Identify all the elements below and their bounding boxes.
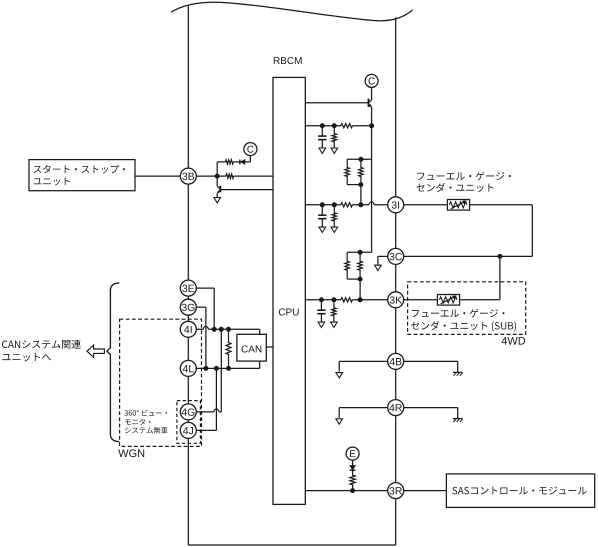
wire diode to splice C: [245, 161, 251, 163]
fuel gauge sender label: [417, 172, 511, 181]
dashed box CAN-related units (WGN): [120, 319, 202, 446]
wire 4J to riser: [197, 429, 217, 431]
resistor E chain: [350, 475, 355, 485]
junction dot: [226, 327, 231, 332]
junction dot: [319, 297, 324, 302]
junction dot: [332, 123, 337, 128]
wire row y126: [305, 125, 341, 127]
connector 3I: [388, 197, 404, 213]
wire CAN to RBCM: [266, 346, 273, 348]
RBCM module box: [273, 77, 305, 504]
bottom harness tie wire: [188, 544, 395, 546]
connector 3B: [180, 168, 196, 184]
wire emitter down: [371, 126, 373, 253]
connector 4R: [388, 400, 404, 416]
wire 4G riser: [220, 329, 222, 412]
CAN termination resistor: [226, 329, 231, 368]
junction dot: [320, 123, 325, 128]
wire diode to resistor: [352, 470, 354, 474]
RBCM label: [274, 57, 302, 64]
start-stop unit box: [29, 160, 135, 191]
resistor row 3K: [341, 298, 353, 302]
wire to sub sender: [499, 256, 501, 299]
resistor P1b: [359, 159, 364, 184]
wire 3C to ground: [378, 255, 388, 257]
ground (open arrow) 3C: [375, 265, 382, 270]
brace CAN-related group: [107, 283, 119, 442]
capacitor to ground: [320, 300, 322, 310]
junction dot: [214, 366, 219, 371]
diode D2: [350, 466, 356, 471]
resistor branch: [225, 160, 233, 164]
parallel resistor pair2 bottom bar: [347, 278, 360, 280]
transistor Q1: [369, 100, 372, 103]
junction dot: [332, 202, 337, 207]
wire sub sender to 3K: [404, 299, 438, 301]
connector 3C: [388, 248, 404, 264]
junction dot: [358, 182, 363, 187]
CAN label: [242, 345, 262, 352]
diode D1: [239, 160, 241, 165]
wire hop over 4J riser: [214, 409, 219, 412]
connector 3K: [388, 292, 404, 308]
resistor P2a: [345, 252, 350, 279]
connector 4B: [388, 353, 404, 369]
SAS control module label: [452, 486, 586, 494]
resistor P1a: [345, 159, 350, 184]
wire CAN loop right side: [259, 329, 261, 368]
ground (open arrow) 4R left: [336, 419, 343, 424]
ground (open arrow) below Q2: [214, 198, 221, 203]
WGN label: [118, 449, 144, 457]
fuel gauge sender (SUB) resistor: [437, 295, 459, 306]
connector 3R: [388, 483, 404, 499]
wire 3I to sender: [404, 204, 448, 206]
resistor series 3B: [226, 174, 234, 178]
junction dot: [219, 327, 224, 332]
splice E: [346, 447, 359, 460]
wire row 3R: [305, 490, 387, 492]
wire 4J riser: [215, 368, 217, 430]
connector 4J: [180, 422, 196, 438]
wire branch up: [216, 162, 218, 176]
left harness bus wire: [187, 5, 189, 545]
SAS control module box: [446, 474, 594, 508]
junction node 3B branch: [215, 174, 220, 179]
capacitor to ground: [321, 126, 323, 136]
wire box to 3B: [135, 175, 180, 177]
4WD label: [502, 337, 526, 345]
junction dot: [320, 202, 325, 207]
fuel gauge sender resistor: [447, 200, 469, 211]
connector 4I: [180, 321, 196, 337]
wire 3E down to 4I row: [197, 287, 215, 289]
chassis ground 4R right: [453, 418, 463, 420]
wire E to diode: [352, 460, 354, 466]
wire row 4L: [197, 367, 260, 369]
arrow to CAN system units: [87, 345, 104, 357]
junction dot: [358, 250, 363, 255]
resistor row y126: [341, 124, 353, 128]
CPU label: [279, 308, 299, 315]
wire 3B to RBCM: [197, 175, 227, 177]
right harness bus wire: [395, 17, 397, 545]
junction dot: [212, 327, 217, 332]
connector 4L: [180, 360, 196, 376]
wire 3R to SAS module: [404, 490, 447, 492]
dashed box fuel sender SUB: [408, 282, 526, 335]
wire resistor to diode: [233, 161, 240, 163]
junction dot: [358, 157, 363, 162]
wire pair to 3I row: [360, 185, 362, 205]
wire 4B right to ground: [404, 360, 458, 362]
wire Q2 base to RBCM: [221, 189, 273, 191]
ground (open arrow) 4B left: [336, 373, 343, 378]
resistor to ground: [332, 300, 337, 316]
parallel resistor pair2 top bar: [347, 251, 371, 253]
transistor Q2: [216, 176, 218, 186]
start-stop unit label: [34, 165, 125, 174]
wire row 3I: [305, 204, 341, 206]
junction dot: [350, 488, 355, 493]
junction dot: [226, 366, 231, 371]
connector 3E: [180, 280, 196, 296]
wire hop over emitter line: [369, 202, 374, 205]
dashed box 360-view: [177, 401, 201, 444]
splice C (top): [365, 74, 378, 87]
resistor to ground: [332, 205, 337, 221]
wire 3G down to 4L row: [197, 306, 206, 308]
resistor to ground: [332, 126, 337, 142]
wire harness break (wavy line): [171, 2, 412, 21]
parallel resistor pair top bar: [347, 158, 371, 160]
parallel resistor pair bottom bar: [347, 184, 361, 186]
splice C (3B branch): [244, 143, 257, 156]
junction node sender sub: [497, 254, 502, 259]
wire 4R left to ground: [339, 407, 387, 409]
chassis ground 4B right: [453, 371, 463, 373]
junction dot: [331, 297, 336, 302]
resistor row 3I: [341, 203, 353, 207]
wire Q1 base to RBCM: [305, 102, 368, 104]
connector 3G: [180, 299, 196, 315]
junction dot: [358, 277, 363, 282]
wire sender loop: [470, 204, 533, 206]
capacitor to ground: [321, 205, 323, 215]
junction dot: [358, 297, 363, 302]
wire row 4I: [197, 328, 204, 330]
wire 4G to riser: [197, 411, 214, 413]
wire resistor to 3R row: [352, 485, 354, 491]
fuel sender SUB label: [412, 309, 505, 318]
wire pair2 to 3K row: [359, 279, 361, 300]
junction dot: [203, 366, 208, 371]
connector 4G: [180, 404, 196, 420]
CAN system units label: [2, 340, 81, 349]
wire 4B left to ground: [339, 360, 387, 362]
360-view monitor label: [124, 410, 167, 416]
CAN transceiver box: [237, 334, 266, 361]
junction dot: [358, 202, 363, 207]
junction node emitter: [369, 123, 374, 128]
wire hop over 3G wire: [203, 326, 208, 329]
wire row 3K: [305, 299, 341, 301]
wire C to Q1 collector: [371, 87, 373, 100]
wire 4R right to ground: [404, 407, 458, 409]
resistor P2b: [358, 252, 363, 279]
